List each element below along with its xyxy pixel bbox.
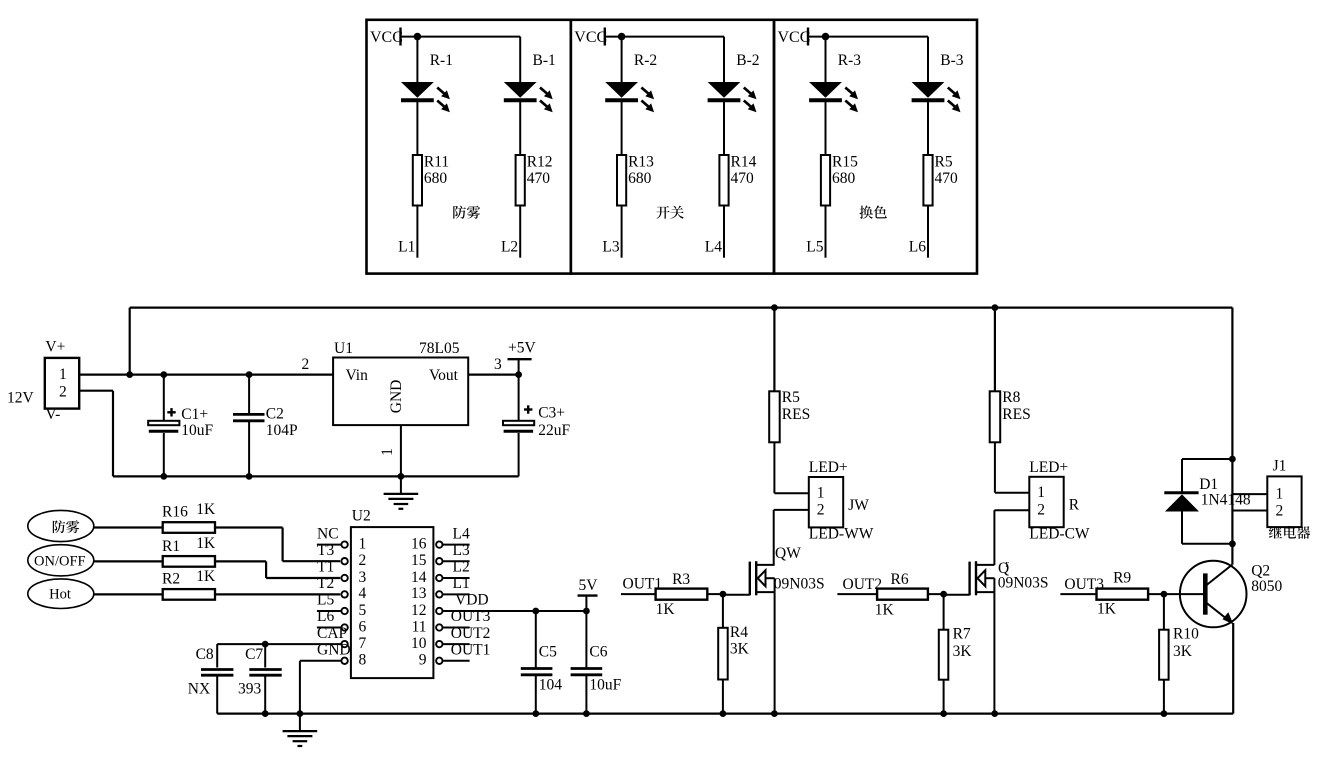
svg-text:Vout: Vout xyxy=(429,367,459,384)
svg-text:R2: R2 xyxy=(162,571,180,588)
svg-text:680: 680 xyxy=(832,170,856,187)
svg-text:GND: GND xyxy=(388,380,405,414)
svg-text:+5V: +5V xyxy=(508,340,536,357)
svg-text:L4: L4 xyxy=(453,525,470,542)
svg-text:2: 2 xyxy=(302,356,310,373)
svg-text:3: 3 xyxy=(494,356,502,373)
svg-text:R3: R3 xyxy=(672,571,690,588)
svg-text:B-3: B-3 xyxy=(940,52,964,69)
svg-text:L4: L4 xyxy=(705,239,722,256)
svg-text:R7: R7 xyxy=(953,625,971,642)
svg-text:470: 470 xyxy=(527,170,551,187)
svg-text:Q2: Q2 xyxy=(1251,562,1270,579)
svg-text:VCC: VCC xyxy=(574,29,607,46)
svg-text:L1: L1 xyxy=(398,239,415,256)
svg-text:U2: U2 xyxy=(352,508,371,525)
svg-text:QW: QW xyxy=(775,545,801,562)
svg-text:1: 1 xyxy=(1276,486,1284,503)
svg-text:R-2: R-2 xyxy=(634,52,657,69)
svg-text:1: 1 xyxy=(379,448,396,456)
svg-text:12: 12 xyxy=(411,602,427,619)
svg-text:14: 14 xyxy=(411,569,427,586)
svg-text:R: R xyxy=(1069,496,1080,513)
svg-text:393: 393 xyxy=(238,680,262,697)
svg-text:R9: R9 xyxy=(1113,569,1131,586)
svg-text:LED-CW: LED-CW xyxy=(1029,525,1090,542)
svg-text:R5: R5 xyxy=(935,154,953,171)
svg-text:1: 1 xyxy=(359,535,367,552)
svg-text:10: 10 xyxy=(411,635,427,652)
svg-text:Hot: Hot xyxy=(49,587,71,603)
svg-text:VCC: VCC xyxy=(370,29,403,46)
svg-text:VCC: VCC xyxy=(778,29,811,46)
svg-text:C8: C8 xyxy=(196,646,214,663)
svg-text:C3+: C3+ xyxy=(538,404,565,421)
svg-text:104P: 104P xyxy=(266,422,298,439)
svg-text:C6: C6 xyxy=(589,643,607,660)
svg-text:L5: L5 xyxy=(806,239,823,256)
svg-text:V+: V+ xyxy=(45,339,65,356)
svg-text:1: 1 xyxy=(59,366,67,383)
svg-text:B-1: B-1 xyxy=(533,52,556,69)
svg-text:1K: 1K xyxy=(1097,600,1117,617)
svg-text:12V: 12V xyxy=(7,389,35,406)
svg-text:680: 680 xyxy=(424,170,448,187)
svg-text:R-3: R-3 xyxy=(838,52,862,69)
svg-text:5V: 5V xyxy=(579,577,599,594)
svg-text:16: 16 xyxy=(411,535,427,552)
svg-text:R-1: R-1 xyxy=(430,52,453,69)
svg-text:78L05: 78L05 xyxy=(419,340,460,357)
svg-text:L3: L3 xyxy=(602,239,619,256)
svg-text:4: 4 xyxy=(359,585,367,602)
svg-text:5: 5 xyxy=(359,602,367,619)
svg-text:7: 7 xyxy=(359,635,367,652)
svg-text:2: 2 xyxy=(1276,503,1284,520)
svg-text:470: 470 xyxy=(731,170,755,187)
svg-text:2: 2 xyxy=(1037,502,1045,519)
svg-text:1K: 1K xyxy=(656,601,676,618)
svg-text:Vin: Vin xyxy=(346,367,369,384)
svg-text:R6: R6 xyxy=(891,571,909,588)
svg-text:1K: 1K xyxy=(196,501,216,518)
svg-text:R8: R8 xyxy=(1002,389,1020,406)
svg-text:L5: L5 xyxy=(317,592,334,609)
svg-text:R10: R10 xyxy=(1173,625,1199,642)
svg-text:R14: R14 xyxy=(731,154,757,171)
svg-text:R13: R13 xyxy=(628,154,654,171)
svg-text:2: 2 xyxy=(817,502,825,519)
svg-text:1K: 1K xyxy=(875,602,895,619)
svg-text:LED+: LED+ xyxy=(1029,459,1068,476)
svg-text:R4: R4 xyxy=(730,624,748,641)
svg-text:C5: C5 xyxy=(539,643,557,660)
svg-text:R16: R16 xyxy=(162,504,188,521)
svg-text:L2: L2 xyxy=(501,239,518,256)
svg-text:R1: R1 xyxy=(162,538,180,555)
svg-text:3: 3 xyxy=(359,569,367,586)
svg-text:1: 1 xyxy=(1037,484,1045,501)
svg-text:B-2: B-2 xyxy=(736,52,759,69)
svg-text:15: 15 xyxy=(411,552,427,569)
svg-text:10uF: 10uF xyxy=(181,422,213,439)
svg-text:NC: NC xyxy=(317,525,339,542)
svg-text:3K: 3K xyxy=(953,643,973,660)
svg-text:R5: R5 xyxy=(782,389,800,406)
svg-text:JW: JW xyxy=(848,497,869,514)
svg-text:1K: 1K xyxy=(196,568,216,585)
svg-text:C1+: C1+ xyxy=(181,406,208,423)
svg-text:6: 6 xyxy=(359,618,367,635)
svg-text:1: 1 xyxy=(817,485,825,502)
svg-text:680: 680 xyxy=(628,170,652,187)
svg-text:T1: T1 xyxy=(317,559,334,576)
svg-text:3K: 3K xyxy=(1173,643,1193,660)
svg-text:9: 9 xyxy=(419,652,427,669)
svg-text:R15: R15 xyxy=(832,154,858,171)
svg-text:10uF: 10uF xyxy=(589,676,621,693)
svg-text:L6: L6 xyxy=(909,239,926,256)
svg-text:RES: RES xyxy=(782,406,810,423)
svg-text:ON/OFF: ON/OFF xyxy=(34,553,86,569)
svg-text:D1: D1 xyxy=(1199,476,1218,493)
svg-text:R11: R11 xyxy=(424,154,449,171)
svg-text:R12: R12 xyxy=(527,154,553,171)
svg-text:3K: 3K xyxy=(730,640,750,657)
svg-text:LED+: LED+ xyxy=(809,459,848,476)
svg-text:NX: NX xyxy=(188,680,210,697)
svg-text:C7: C7 xyxy=(245,646,263,663)
svg-text:470: 470 xyxy=(935,170,959,187)
svg-text:J1: J1 xyxy=(1273,457,1287,474)
svg-text:09N03S: 09N03S xyxy=(774,575,825,592)
svg-text:22uF: 22uF xyxy=(538,422,570,439)
svg-text:09N03S: 09N03S xyxy=(998,575,1049,592)
svg-text:U1: U1 xyxy=(334,340,353,357)
svg-text:8: 8 xyxy=(359,652,367,669)
svg-text:2: 2 xyxy=(59,384,67,401)
svg-text:8050: 8050 xyxy=(1251,578,1282,595)
svg-text:1K: 1K xyxy=(196,535,216,552)
svg-text:13: 13 xyxy=(411,585,427,602)
svg-text:C2: C2 xyxy=(266,406,284,423)
svg-text:11: 11 xyxy=(412,618,427,635)
svg-text:LED-WW: LED-WW xyxy=(809,526,874,543)
svg-text:T2: T2 xyxy=(317,575,334,592)
svg-text:104: 104 xyxy=(539,676,563,693)
svg-text:2: 2 xyxy=(359,552,367,569)
svg-text:V-: V- xyxy=(45,406,60,423)
svg-text:RES: RES xyxy=(1002,406,1030,423)
